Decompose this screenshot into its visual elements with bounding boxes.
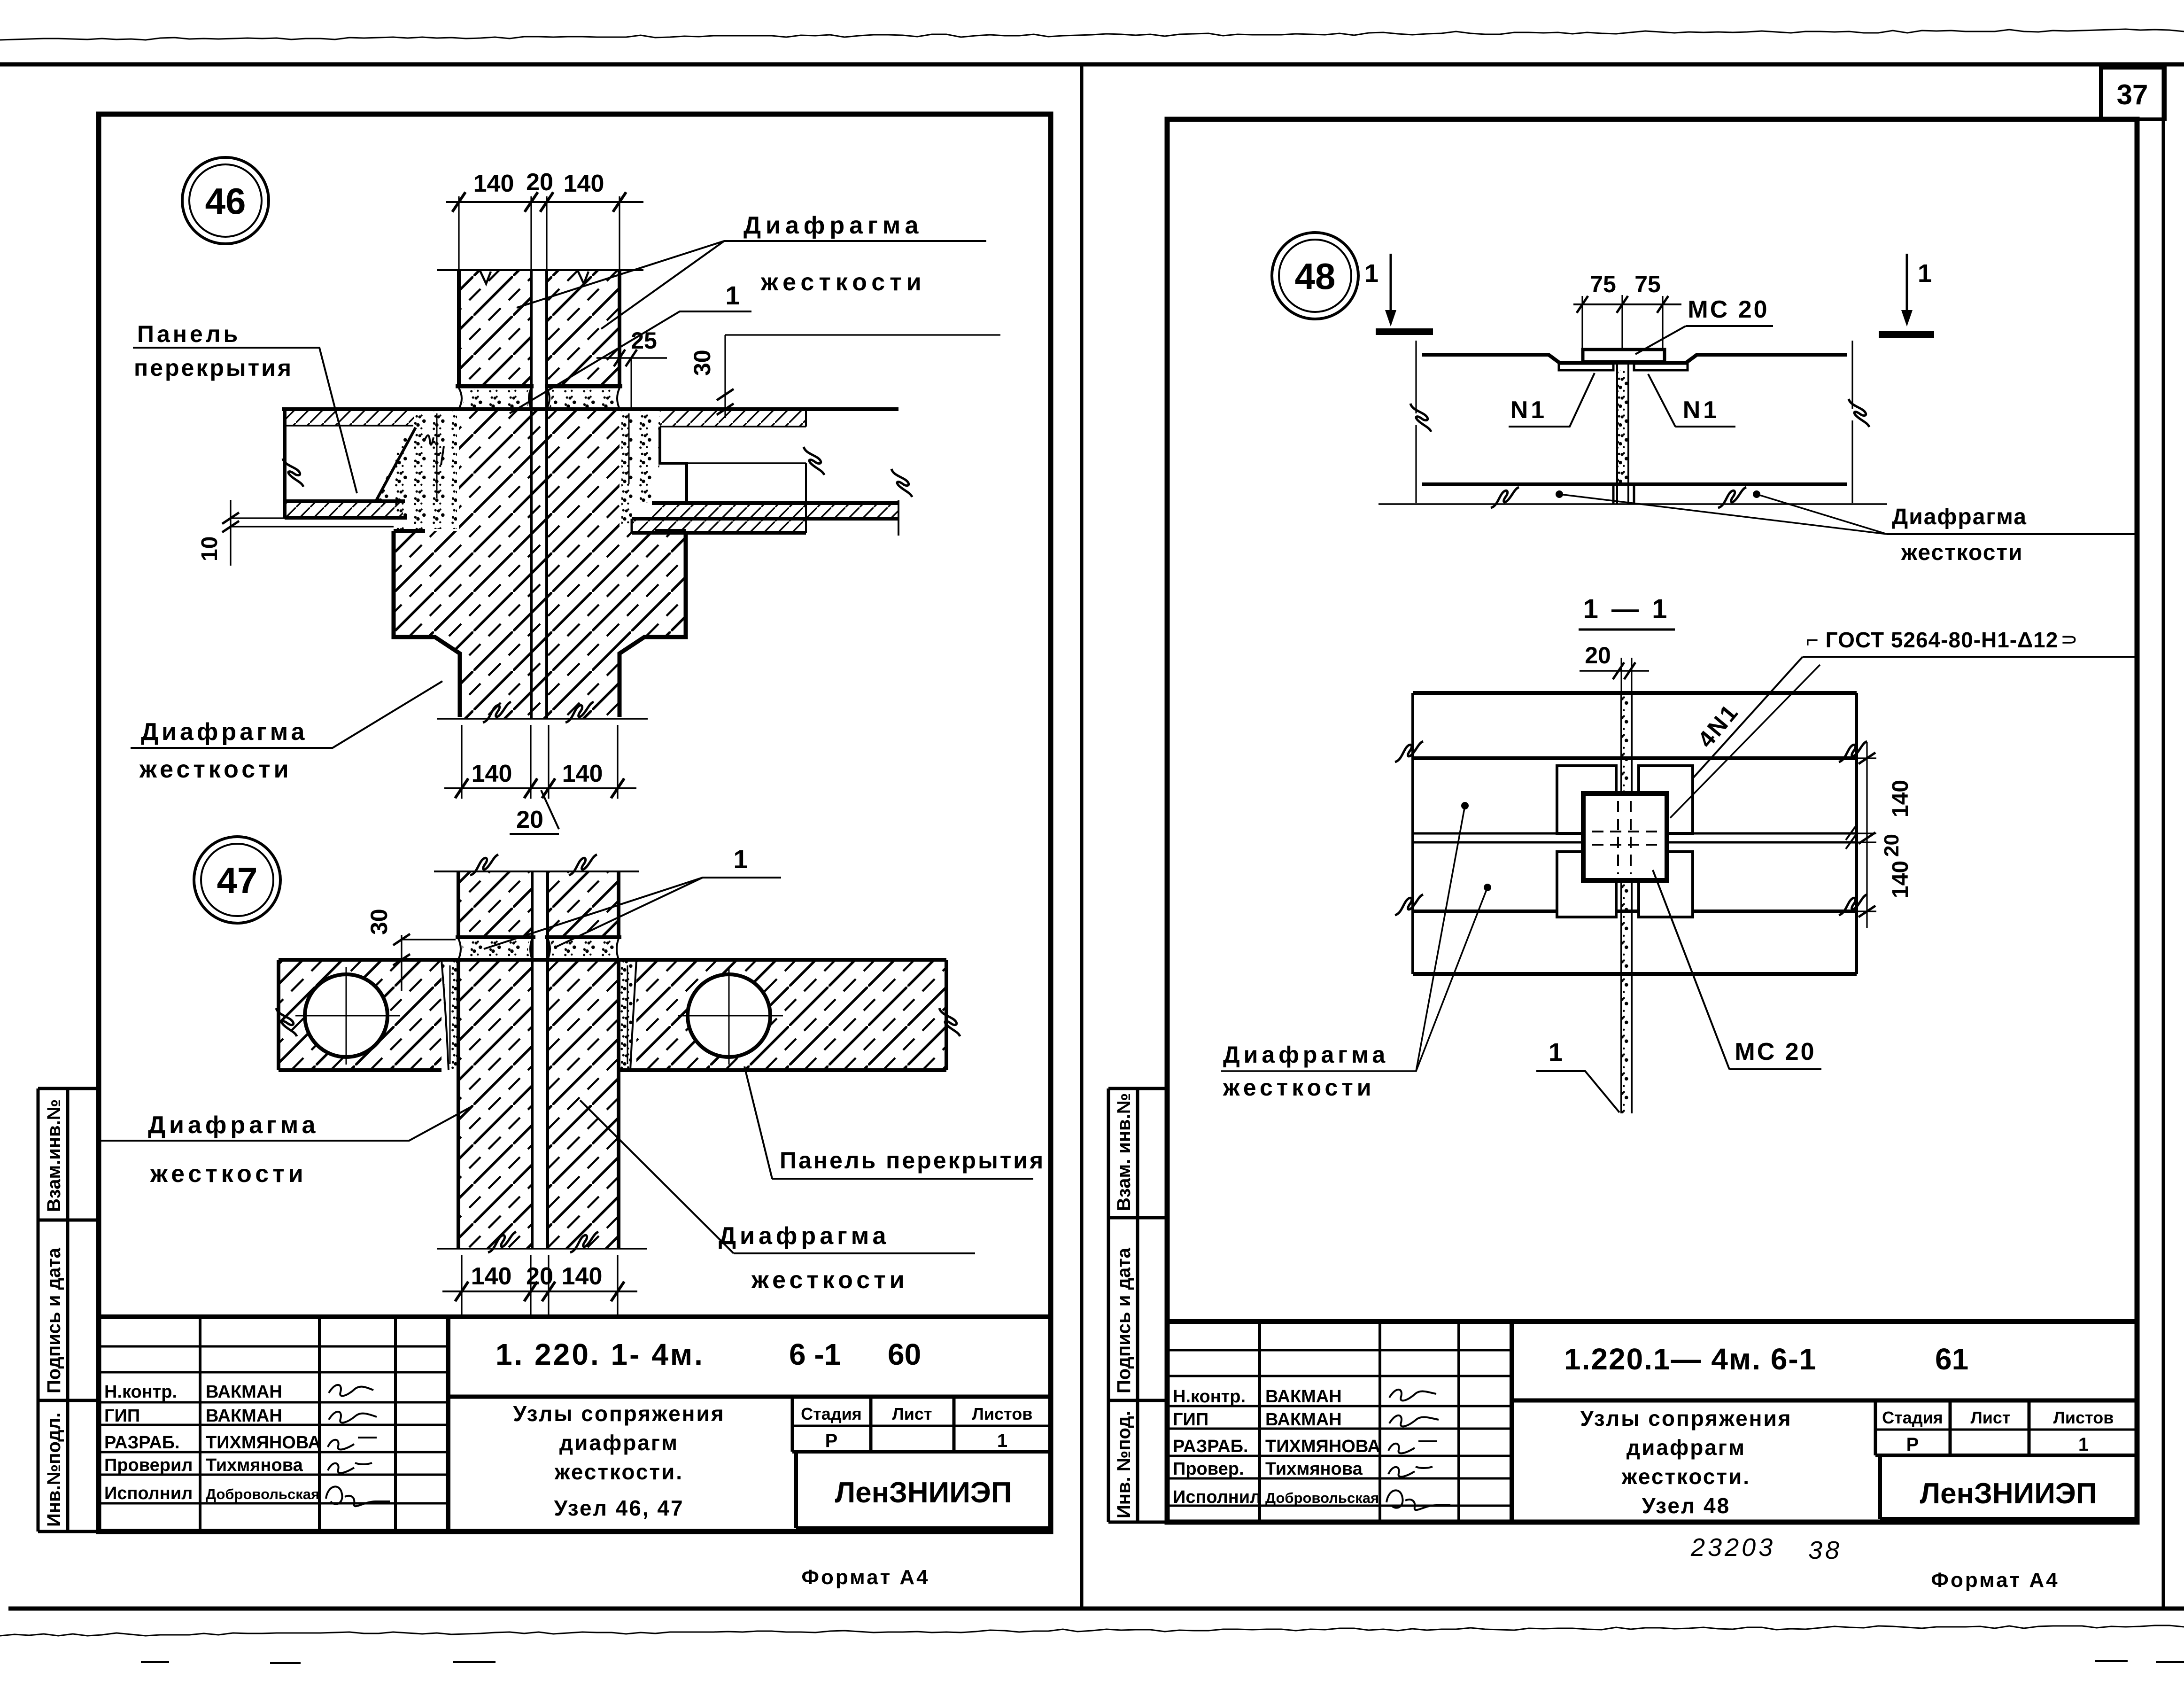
svg-text:Проверил: Проверил: [104, 1455, 193, 1475]
svg-text:140: 140: [472, 760, 512, 787]
detail circle 48: [1272, 233, 1358, 319]
svg-text:38: 38: [1808, 1536, 1842, 1564]
svg-text:1. 220. 1- 4м.: 1. 220. 1- 4м.: [496, 1337, 705, 1371]
svg-text:46: 46: [205, 180, 246, 222]
welded plate MC20: [1583, 350, 1665, 362]
embed plate N1 right: [1634, 364, 1688, 370]
svg-text:Диафрагма: Диафрагма: [148, 1112, 319, 1139]
svg-text:ГИП: ГИП: [104, 1406, 140, 1426]
svg-text:Формат А4: Формат А4: [801, 1566, 929, 1589]
svg-text:диафрагм: диафрагм: [559, 1430, 679, 1455]
node46 upper wall panel right: [547, 270, 620, 386]
label 4N1: [1670, 665, 1820, 818]
node46 right slab end notch: [660, 427, 687, 503]
node48 side extension lines: [1415, 341, 1417, 503]
node46 bearing line under mortar: [282, 407, 898, 411]
svg-text:Добровольская: Добровольская: [1265, 1490, 1379, 1506]
svg-text:1: 1: [1549, 1038, 1563, 1066]
svg-text:20: 20: [516, 806, 543, 833]
svg-text:Панель: Панель: [137, 321, 240, 347]
svg-text:140: 140: [473, 170, 514, 197]
embed plate N1 left: [1559, 364, 1613, 370]
svg-text:23203: 23203: [1690, 1533, 1775, 1562]
svg-text:РАЗРАБ.: РАЗРАБ.: [1173, 1437, 1248, 1456]
node46 mortar bed (stipple): [461, 389, 529, 408]
svg-text:1: 1: [725, 280, 740, 310]
node46 upper wall panel left: [459, 270, 531, 386]
svg-text:140: 140: [471, 1263, 512, 1290]
node46 left floor slab: [285, 409, 416, 501]
svg-text:ТИХМЯНОВА: ТИХМЯНОВА: [1265, 1437, 1380, 1456]
svg-text:жесткости: жесткости: [751, 1267, 908, 1294]
svg-text:30: 30: [366, 909, 392, 935]
node47 left slab with core: [279, 961, 441, 1070]
node47 slab bearing line: [279, 958, 946, 962]
svg-text:20: 20: [1880, 834, 1903, 857]
svg-text:140: 140: [1888, 780, 1913, 817]
node47 upper wall right: [548, 871, 619, 937]
svg-text:Стадия: Стадия: [1882, 1408, 1943, 1427]
svg-text:48: 48: [1295, 256, 1336, 297]
node46 lower wall mass: [394, 409, 686, 719]
svg-text:Диафрагма: Диафрагма: [1223, 1042, 1389, 1068]
right side column strip: [1108, 1088, 1138, 1522]
svg-text:47: 47: [217, 860, 258, 901]
svg-text:Узлы сопряжения: Узлы сопряжения: [1580, 1406, 1792, 1430]
node48 lower reference line: [1379, 503, 1887, 505]
right title block lines: [1167, 1319, 2137, 1324]
svg-text:Взам. инв.№: Взам. инв.№: [1114, 1093, 1134, 1211]
svg-text:Инв. №под.: Инв. №под.: [1114, 1411, 1134, 1518]
svg-text:жесткости.: жесткости.: [1621, 1464, 1750, 1489]
svg-text:РАЗРАБ.: РАЗРАБ.: [104, 1433, 180, 1453]
scan top rule: [0, 62, 2184, 67]
svg-text:⌐ ГОСТ 5264-80-Н1-Δ12⸧: ⌐ ГОСТ 5264-80-Н1-Δ12⸧: [1806, 628, 2080, 652]
node47 grout funnels: [441, 960, 458, 1070]
svg-text:Стадия: Стадия: [801, 1404, 862, 1423]
svg-text:Провер.: Провер.: [1173, 1459, 1244, 1479]
svg-text:Тихмянова: Тихмянова: [1265, 1459, 1363, 1479]
svg-text:Листов: Листов: [2053, 1408, 2114, 1427]
svg-text:N1: N1: [1510, 396, 1547, 424]
svg-text:жесткости.: жесткости.: [554, 1460, 683, 1484]
node46 wall top cut line: [437, 269, 643, 271]
svg-text:Р: Р: [1906, 1434, 1919, 1455]
svg-text:N1: N1: [1683, 396, 1719, 424]
dim 30 (node46 right): [724, 335, 726, 418]
svg-text:ГИП: ГИП: [1173, 1410, 1208, 1430]
svg-text:ЛенЗНИИЭП: ЛенЗНИИЭП: [1920, 1477, 2097, 1510]
node48 wall top edge with recess: [1422, 355, 1847, 363]
svg-text:Листов: Листов: [972, 1404, 1033, 1423]
node46 bottom dim 140/20/140: [462, 725, 618, 799]
node47 right slab with core: [636, 961, 946, 1070]
svg-text:Исполнил: Исполнил: [104, 1484, 193, 1503]
svg-text:Подпись и дата: Подпись и дата: [44, 1247, 64, 1393]
page number box 37: [2101, 68, 2165, 119]
node46 right monolith (stipple): [621, 411, 660, 525]
svg-text:Исполнил: Исполнил: [1173, 1487, 1261, 1507]
svg-text:1: 1: [1918, 259, 1932, 288]
svg-text:ВАКМАН: ВАКМАН: [1265, 1410, 1342, 1430]
svg-text:Лист: Лист: [1970, 1408, 2010, 1427]
node47 top cut line: [434, 871, 639, 872]
node46 lower wall bottom cut line: [437, 718, 648, 720]
svg-text:жесткости: жесткости: [139, 756, 292, 783]
svg-text:1 — 1: 1 — 1: [1583, 594, 1670, 624]
svg-text:20: 20: [1585, 642, 1611, 669]
node46 bottom 20 label with leader: [541, 790, 559, 829]
right sheet frame: [1167, 119, 2137, 1522]
scan bottom wavy edge: [0, 1625, 2184, 1636]
svg-text:МС 20: МС 20: [1735, 1038, 1816, 1065]
svg-text:37: 37: [2117, 79, 2148, 110]
svg-text:61: 61: [1935, 1342, 1968, 1376]
right signature scribbles: [1389, 1390, 1436, 1401]
svg-text:75: 75: [1634, 271, 1661, 297]
section mark 1 right: [1906, 254, 1908, 316]
svg-text:ВАКМАН: ВАКМАН: [206, 1406, 282, 1426]
svg-text:МС 20: МС 20: [1688, 296, 1769, 323]
dim 75/75: [1573, 303, 1681, 305]
centre element MC20 (plan): [1583, 793, 1667, 880]
left sheet frame: [99, 114, 1051, 1532]
node48 vertical joint: [1617, 370, 1628, 484]
svg-text:Диафрагма: Диафрагма: [1892, 505, 2027, 529]
svg-text:ЛенЗНИИЭП: ЛенЗНИИЭП: [835, 1477, 1012, 1509]
scan stray dashes: [141, 1661, 2184, 1663]
svg-text:Панель перекрытия: Панель перекрытия: [780, 1147, 1045, 1174]
svg-text:6 -1: 6 -1: [789, 1337, 841, 1371]
scan top wavy edge: [0, 29, 2184, 40]
svg-text:диафрагм: диафрагм: [1626, 1435, 1746, 1460]
svg-text:Р: Р: [825, 1430, 838, 1451]
svg-text:ВАКМАН: ВАКМАН: [206, 1382, 282, 1402]
svg-text:жесткости: жесткости: [760, 269, 926, 296]
svg-text:Н.контр.: Н.контр.: [104, 1382, 177, 1402]
svg-text:1.220.1— 4м. 6-1: 1.220.1— 4м. 6-1: [1564, 1342, 1817, 1376]
svg-text:ТИХМЯНОВА: ТИХМЯНОВА: [206, 1433, 321, 1453]
svg-text:ВАКМАН: ВАКМАН: [1265, 1387, 1342, 1407]
signature scribbles: [329, 1385, 373, 1396]
detail circle 47: [194, 837, 280, 923]
svg-text:Узел 48: Узел 48: [1642, 1493, 1730, 1518]
svg-text:Добровольская: Добровольская: [206, 1486, 319, 1502]
svg-text:1: 1: [997, 1430, 1007, 1451]
node46 10-dim at left: [230, 500, 231, 566]
svg-text:Н.контр.: Н.контр.: [1173, 1387, 1246, 1407]
svg-text:Формат А4: Формат А4: [1931, 1569, 2059, 1592]
svg-text:Диафрагма: Диафрагма: [141, 718, 308, 746]
svg-text:жесткости: жесткости: [1901, 540, 2023, 565]
svg-text:Взам.инв.№: Взам.инв.№: [44, 1099, 64, 1212]
svg-text:перекрытия: перекрытия: [134, 355, 293, 381]
svg-text:жесткости: жесткости: [1223, 1074, 1375, 1101]
svg-text:Диафрагма: Диафрагма: [743, 212, 923, 239]
svg-text:140: 140: [1888, 861, 1913, 898]
svg-text:Узел 46, 47: Узел 46, 47: [554, 1496, 684, 1520]
svg-text:Подпись и дата: Подпись и дата: [1114, 1247, 1134, 1393]
right dims 140/20/140: [1857, 758, 1876, 911]
section joint stipple: [1621, 693, 1632, 1113]
node47 bottom cut line: [437, 1248, 647, 1250]
svg-text:жесткости: жесткости: [150, 1160, 307, 1188]
svg-text:1: 1: [1364, 259, 1379, 288]
central page divider: [1080, 64, 1084, 1609]
svg-text:Диафрагма: Диафрагма: [719, 1222, 890, 1250]
svg-text:140: 140: [562, 760, 603, 787]
node46 left monolith (stipple): [376, 411, 457, 529]
svg-text:75: 75: [1590, 271, 1616, 297]
svg-text:1: 1: [733, 844, 748, 874]
section bands: [1413, 693, 1857, 974]
svg-text:Инв.№подл.: Инв.№подл.: [44, 1413, 64, 1527]
svg-text:1: 1: [2078, 1434, 2089, 1455]
section mark 1 left: [1390, 254, 1392, 316]
node47 walls below (continuous): [458, 960, 532, 1249]
svg-text:60: 60: [888, 1337, 921, 1371]
node46 vertical joint lines: [530, 270, 533, 719]
node46 left slab end bevel: [376, 428, 416, 501]
svg-text:Тихмянова: Тихмянова: [206, 1455, 303, 1475]
svg-text:25: 25: [631, 327, 657, 354]
keys (white): [1557, 766, 1616, 833]
page right edge: [2162, 64, 2165, 1609]
left side column strip: [38, 1088, 68, 1532]
node48 wall bottom edge: [1422, 482, 1847, 486]
node47 mortar bed stipple: [461, 940, 530, 958]
dim 30 (node47): [401, 935, 402, 991]
svg-text:10: 10: [197, 536, 222, 561]
svg-text:Узлы сопряжения: Узлы сопряжения: [513, 1401, 725, 1426]
svg-text:30: 30: [689, 350, 715, 376]
node46 right floor slab: [660, 411, 806, 427]
scan bottom rule: [8, 1607, 2184, 1611]
node47 bottom dim 140/20/140: [462, 1255, 618, 1315]
node47 upper wall left: [458, 871, 532, 937]
svg-text:140: 140: [562, 1263, 603, 1290]
svg-text:Лист: Лист: [892, 1404, 932, 1423]
node46 upper dim 140/20/140: [446, 201, 643, 203]
node47 joint verticals: [532, 871, 548, 1249]
svg-text:140: 140: [564, 170, 604, 197]
detail circle 46: [182, 157, 269, 244]
left title block lines: [99, 1314, 1051, 1319]
svg-text:20: 20: [526, 1263, 553, 1290]
svg-text:20: 20: [526, 169, 553, 196]
